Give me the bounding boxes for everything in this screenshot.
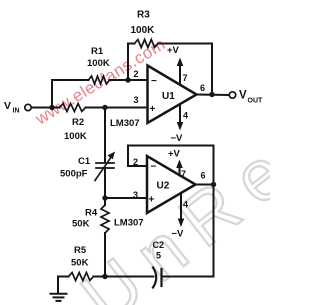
node U2 output junction <box>211 182 216 187</box>
svg-text:7: 7 <box>183 73 188 83</box>
svg-text:100K: 100K <box>64 131 87 142</box>
wire Vin to junction <box>32 107 53 109</box>
svg-text:3: 3 <box>134 95 139 105</box>
label pin4 U1 <box>183 111 188 121</box>
svg-text:R1: R1 <box>91 46 104 57</box>
wire pin3 node down to C1 <box>104 108 106 163</box>
svg-text:6: 6 <box>200 83 205 93</box>
svg-text:R5: R5 <box>74 245 87 256</box>
label minus U2 <box>151 162 157 173</box>
label pin2 U1 <box>134 69 139 79</box>
label pin4 U2 <box>183 200 188 210</box>
wire bottom rail to C2 <box>105 276 154 278</box>
label R2 <box>64 117 87 142</box>
svg-text:V: V <box>4 100 11 112</box>
watermark gray letters <box>68 123 313 305</box>
label +V U1 <box>167 45 180 56</box>
label pin7 U1 <box>183 73 188 83</box>
svg-text:50K: 50K <box>71 258 89 269</box>
wire R1 to pin2 node <box>110 79 129 81</box>
svg-text:−V: −V <box>171 133 184 144</box>
label -V U1 <box>171 133 184 144</box>
svg-text:+V: +V <box>167 45 180 56</box>
svg-text:50K: 50K <box>72 219 90 230</box>
svg-text:R3: R3 <box>137 10 150 21</box>
label R5 <box>71 245 89 269</box>
wire to R1 <box>52 79 89 81</box>
svg-text:R4: R4 <box>85 208 98 219</box>
svg-text:U2: U2 <box>157 181 170 192</box>
ground <box>51 294 67 301</box>
node pin3 junction <box>102 105 107 110</box>
svg-text:C1: C1 <box>78 156 91 167</box>
svg-text:2: 2 <box>134 69 139 79</box>
op-amp U1 <box>148 66 197 124</box>
resistor R1 <box>89 76 110 84</box>
resistor R3 <box>135 40 159 48</box>
svg-text:100K: 100K <box>131 25 156 36</box>
svg-text:LM307: LM307 <box>114 218 144 229</box>
svg-text:LM307: LM307 <box>110 118 140 129</box>
svg-text:+: + <box>149 195 155 206</box>
label Vin <box>4 100 20 115</box>
svg-text:4: 4 <box>183 111 188 121</box>
resistor R2 <box>52 104 86 112</box>
label pin2 U2 <box>133 157 138 167</box>
label plus U1 <box>150 104 156 115</box>
svg-text:−: − <box>151 76 157 87</box>
label C2 <box>153 240 165 261</box>
wire U2 output <box>196 184 214 186</box>
svg-text:3: 3 <box>133 190 138 200</box>
pin 4 arrow U2 <box>178 194 185 227</box>
svg-text:100K: 100K <box>87 58 110 69</box>
svg-text:V: V <box>239 90 247 102</box>
label minus U1 <box>151 76 157 87</box>
svg-text:7: 7 <box>181 169 186 179</box>
op-amp U2 <box>147 156 196 213</box>
svg-text:2: 2 <box>133 157 138 167</box>
node Vin terminal <box>25 104 31 110</box>
svg-text:4: 4 <box>183 200 188 210</box>
label R3 <box>131 10 156 37</box>
label pin6 U1 <box>200 83 205 93</box>
wire junction up to R1 row <box>51 80 53 108</box>
label pin7 U2 <box>181 169 186 179</box>
svg-text:−V: −V <box>172 229 185 240</box>
wire U1 output <box>197 94 230 97</box>
label pin3 U2 <box>133 190 138 200</box>
resistor R4 <box>101 205 109 233</box>
resistor R5 <box>69 273 94 281</box>
svg-text:U1: U1 <box>162 91 175 102</box>
svg-text:IN: IN <box>13 108 20 115</box>
wire node to R4 <box>104 198 106 205</box>
label LM307 U1 <box>110 118 140 129</box>
wire C1 to node <box>104 168 106 198</box>
label LM307 U2 <box>114 218 144 229</box>
node Vout terminal <box>229 92 235 98</box>
label U1 <box>162 91 175 102</box>
label +V U2 <box>168 149 181 160</box>
label -V U2 <box>172 229 185 240</box>
wire pin2 node to op-amp <box>128 79 147 81</box>
label U2 <box>157 181 170 192</box>
label plus U2 <box>149 195 155 206</box>
label Vout <box>239 90 263 105</box>
node C1 R4 junction <box>102 195 107 200</box>
wire pin2 node up to R3 <box>127 44 129 81</box>
svg-text:5: 5 <box>156 251 161 261</box>
svg-text:OUT: OUT <box>248 98 264 105</box>
pin 7 arrow U2 <box>176 160 183 176</box>
wire U2 feedback <box>128 146 214 185</box>
wire R5 to node <box>94 276 106 278</box>
capacitor C2 <box>153 268 162 288</box>
node pin2 junction <box>125 77 130 82</box>
label R4 <box>72 208 98 230</box>
wire ground corner <box>58 277 69 294</box>
label C1 <box>60 156 91 180</box>
capacitor C1 variable <box>95 152 115 181</box>
wire node to U2 pin3 <box>105 197 147 199</box>
wire R2 to op-amp pin3 <box>86 107 148 109</box>
label R1 <box>87 46 110 69</box>
node output junction U1 <box>209 92 214 97</box>
svg-text:6: 6 <box>201 171 206 181</box>
pin 4 arrow U1 <box>177 105 184 131</box>
label pin3 U1 <box>134 95 139 105</box>
node Vin junction <box>49 105 54 110</box>
svg-text:−: − <box>151 162 157 173</box>
wire C2 to right rail <box>162 185 214 277</box>
pin 7 arrow U1 <box>177 58 184 85</box>
svg-text:C2: C2 <box>153 240 165 250</box>
wire R4 to bottom rail <box>104 233 106 277</box>
svg-text:500pF: 500pF <box>60 169 88 180</box>
wire to R3 <box>128 43 135 45</box>
svg-text:R2: R2 <box>72 117 84 128</box>
wire R3 to right corner <box>158 44 212 95</box>
svg-text:+: + <box>150 104 156 115</box>
svg-text:+V: +V <box>168 149 181 160</box>
node bottom junction <box>102 274 107 279</box>
label pin6 U2 <box>201 171 206 181</box>
watermark pink text <box>31 34 169 128</box>
